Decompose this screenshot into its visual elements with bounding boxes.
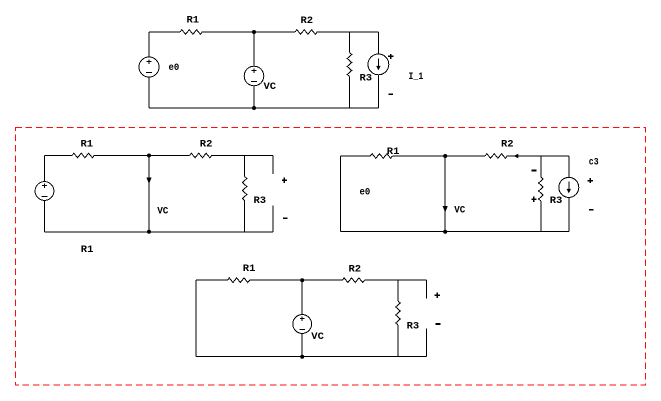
voltage source VC (circuit 4) [293, 315, 312, 334]
svg-text:c3: c3 [589, 157, 599, 169]
svg-text:VC: VC [264, 81, 277, 93]
svg-text:R1: R1 [187, 15, 200, 27]
svg-text:R1: R1 [81, 139, 94, 151]
resistor R3 (circuit 2) [242, 177, 247, 201]
wire: circuit-1 top rail right [317, 31, 378, 33]
current source I_1 [368, 54, 389, 75]
wire: VC branch (circuit 4) [301, 280, 303, 357]
svg-text:R2: R2 [501, 138, 514, 150]
voltage source e0 [139, 57, 159, 77]
wire: circuit-3 bottom rail [341, 231, 569, 233]
wire: R3 branch (circuit 3) [540, 156, 542, 232]
wire: R3 branch (circuit 4) [397, 280, 399, 357]
arrowhead: VC current direction (circuit 3) [443, 206, 448, 213]
wire: VC branch (circuit 1) [253, 32, 255, 108]
wire: I_1 branch (circuit 1) [377, 32, 379, 108]
resistor R3 (circuit 4) [396, 301, 401, 325]
svg-text:VC: VC [311, 331, 324, 343]
node: VC bottom junction (circuit 2) [147, 230, 151, 234]
wire: output port (circuit 4) [426, 280, 428, 357]
wire: R3 branch (circuit 2) [244, 156, 246, 232]
wire: circuit-3 top rail middle [393, 155, 486, 157]
arrowhead: VC current direction (circuit 2) [146, 178, 151, 185]
svg-text:R1: R1 [243, 263, 256, 275]
wire: circuit-2 top rail right [212, 155, 273, 157]
svg-text:VC: VC [157, 206, 169, 218]
label + (circuit 4 port) [435, 293, 440, 298]
svg-text:e0: e0 [169, 62, 180, 74]
wire: circuit-2 left rail [44, 156, 46, 232]
wire: circuit-1 top rail middle [202, 31, 295, 33]
wire: circuit-1 top rail [149, 31, 180, 33]
node: VC bottom junction (circuit 1) [252, 106, 256, 110]
label + (circuit 2 port) [282, 178, 287, 183]
resistor R2 (circuit 4) [342, 278, 364, 283]
wire: circuit-3 left rail [340, 156, 342, 232]
resistor R2 (circuit 2) [190, 153, 212, 158]
label - (circuit 2 port) [283, 217, 288, 219]
dashed selection box (red) [15, 128, 645, 386]
svg-text:R3: R3 [254, 195, 267, 207]
wire: circuit-3 top rail right [507, 155, 569, 157]
label - (I_1 polarity) [389, 93, 394, 95]
svg-text:VC: VC [454, 205, 466, 217]
label - (R3 top polarity, circuit 3) [532, 170, 537, 172]
svg-text:e0: e0 [360, 187, 371, 199]
resistor R1 (circuit 4) [227, 278, 249, 283]
resistor R3 (circuit 1) [347, 53, 352, 77]
node: VC top junction (circuit 3) [443, 154, 447, 158]
wire: circuit-3 top rail [341, 155, 371, 157]
resistor R1 (circuit 2) [72, 153, 94, 158]
wire: c3 branch (circuit 3) [568, 156, 570, 232]
arrowhead: current direction into R2 (circuit 3) [514, 154, 519, 158]
node: VC top junction (circuit 1) [252, 30, 256, 34]
wire: circuit-1 bottom rail [149, 107, 378, 109]
wire: circuit-4 top rail right [365, 279, 427, 281]
resistor R1 (circuit 3) [370, 154, 392, 159]
wire: circuit-1 left rail [148, 32, 150, 108]
wire: circuit-2 bottom rail [45, 231, 274, 233]
svg-text:R2: R2 [301, 15, 314, 27]
label - (circuit 4 port) [436, 323, 441, 325]
wire: circuit-4 bottom rail [196, 356, 426, 358]
svg-text:R3: R3 [550, 195, 563, 207]
resistor R2 (circuit 3) [485, 154, 507, 159]
current source c3 [559, 177, 579, 197]
node: VC bottom junction (circuit 3) [443, 230, 447, 234]
label + (c3 polarity) [588, 178, 593, 183]
resistor R3 (circuit 3) [539, 177, 544, 201]
resistor R1 (circuit 1) [180, 30, 202, 35]
svg-text:I_1: I_1 [409, 71, 424, 83]
voltage source VC (circuit 1) [244, 66, 264, 86]
label + (I_1 polarity) [388, 54, 393, 59]
svg-text:R2: R2 [349, 264, 362, 276]
node: VC top junction (circuit 2) [147, 154, 151, 158]
wire: circuit-2 top rail [45, 155, 73, 157]
wire: output port (circuit 2) [272, 156, 274, 232]
wire: R3 branch (circuit 1) [349, 32, 351, 108]
wire: circuit-4 left rail [195, 280, 197, 357]
wire: circuit-4 top rail [196, 279, 227, 281]
wire: VC branch (circuit 2) [148, 156, 150, 232]
wire: VC branch (circuit 3) [444, 156, 446, 232]
label + (R3 bottom polarity, circuit 3) [531, 197, 536, 202]
wire: circuit-2 top rail middle [94, 155, 189, 157]
svg-text:R3: R3 [407, 321, 420, 333]
node: VC top junction (circuit 4) [300, 278, 304, 282]
wire: circuit-4 top rail middle [250, 279, 343, 281]
voltage source (circuit 2, unlabeled) [35, 182, 54, 201]
svg-text:R3: R3 [360, 73, 373, 85]
svg-text:R1: R1 [81, 244, 94, 256]
resistor R2 (circuit 1) [295, 30, 317, 35]
svg-text:R2: R2 [200, 139, 213, 151]
label - (c3 polarity) [589, 209, 594, 211]
node: VC bottom junction (circuit 4) [300, 355, 304, 359]
